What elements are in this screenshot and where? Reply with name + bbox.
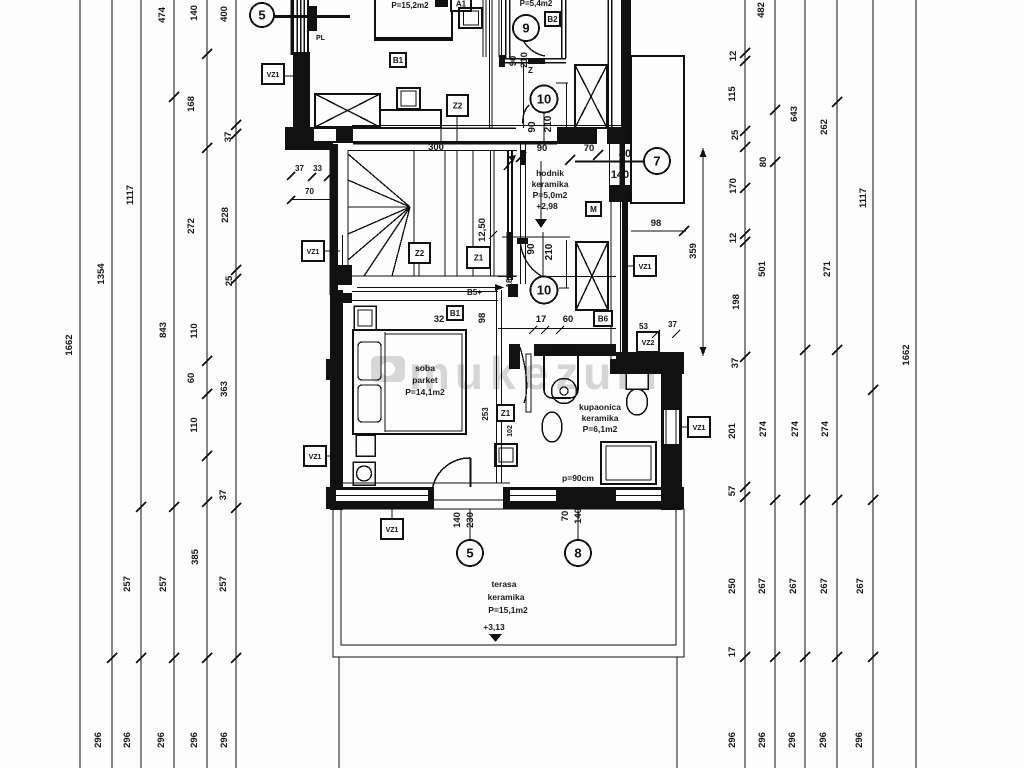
stair treads xyxy=(414,151,512,281)
bathroom right wall xyxy=(616,352,684,374)
svg-text:hodnik: hodnik xyxy=(536,168,564,178)
VZ1 right xyxy=(634,256,656,276)
svg-text:17: 17 xyxy=(727,647,738,658)
svg-text:+2,98: +2,98 xyxy=(536,201,558,211)
marker line from circle 5 top xyxy=(274,15,350,18)
svg-text:P=5,4m2: P=5,4m2 xyxy=(520,0,553,8)
svg-text:VZ1: VZ1 xyxy=(307,249,320,256)
svg-text:+3,13: +3,13 xyxy=(483,622,505,632)
svg-text:33: 33 xyxy=(313,164,322,173)
stair walkline with arrow xyxy=(357,287,503,289)
svg-text:Z2: Z2 xyxy=(453,102,463,111)
left dimension labels xyxy=(64,5,235,748)
svg-text:296: 296 xyxy=(757,732,768,748)
svg-text:474: 474 xyxy=(157,6,168,23)
svg-text:296: 296 xyxy=(156,732,167,748)
svg-text:271: 271 xyxy=(822,260,833,277)
svg-text:296: 296 xyxy=(122,732,133,748)
X-hatched shaft right upper xyxy=(575,65,607,128)
stair left wall xyxy=(330,144,339,295)
svg-text:soba: soba xyxy=(415,363,435,373)
room P=5,4m2 walls xyxy=(505,0,507,58)
svg-text:keramika: keramika xyxy=(532,179,569,189)
door frame hodnik xyxy=(542,232,544,276)
svg-text:B5+: B5+ xyxy=(467,288,482,297)
X-hatched shaft right lower xyxy=(576,242,608,310)
round table xyxy=(353,462,375,485)
black mark top edge xyxy=(435,0,448,7)
dimension 359 arrow line xyxy=(688,148,707,356)
svg-text:37: 37 xyxy=(668,320,677,329)
svg-text:VZ1: VZ1 xyxy=(386,527,399,534)
svg-text:257: 257 xyxy=(158,576,169,592)
svg-text:Z2: Z2 xyxy=(415,249,425,258)
svg-text:PL: PL xyxy=(316,35,326,42)
svg-text:70: 70 xyxy=(305,187,314,196)
svg-text:VZ1: VZ1 xyxy=(267,72,280,79)
dimension 98 xyxy=(631,218,689,236)
door arc room 5,4 xyxy=(519,26,545,56)
circle 8 bottom xyxy=(577,509,579,540)
svg-text:P=15,1m2: P=15,1m2 xyxy=(488,605,528,615)
svg-text:Z1: Z1 xyxy=(501,409,511,418)
label box M hodnik xyxy=(586,202,601,216)
svg-text:B2: B2 xyxy=(547,15,558,24)
svg-text:843: 843 xyxy=(158,322,169,338)
svg-text:B1: B1 xyxy=(450,309,461,318)
svg-text:keramika: keramika xyxy=(582,413,619,423)
svg-text:keramika: keramika xyxy=(488,592,525,602)
svg-text:5: 5 xyxy=(258,8,265,23)
stair winder fan xyxy=(348,154,410,276)
bedroom left wall xyxy=(330,290,343,510)
svg-text:385: 385 xyxy=(190,548,201,565)
svg-text:210: 210 xyxy=(544,243,555,260)
svg-text:267: 267 xyxy=(855,578,866,594)
washbasin xyxy=(542,412,562,442)
wall lines between top rooms xyxy=(482,0,484,57)
pillows xyxy=(358,342,381,380)
nightstand bottom xyxy=(356,435,375,456)
svg-text:90: 90 xyxy=(537,143,548,154)
svg-text:98: 98 xyxy=(651,218,662,229)
terrace inner outline xyxy=(341,509,676,645)
svg-text:198: 198 xyxy=(731,294,742,310)
svg-text:296: 296 xyxy=(727,732,738,748)
hodnik bottom wall xyxy=(498,276,516,278)
right wall notch bar xyxy=(620,144,626,187)
label box B1 top room xyxy=(390,53,406,67)
svg-text:110: 110 xyxy=(189,417,200,432)
label box Z2 top xyxy=(447,95,468,116)
stair outline xyxy=(348,150,517,152)
svg-text:228: 228 xyxy=(220,207,231,223)
bathroom top wall black xyxy=(509,344,520,369)
svg-text:7: 7 xyxy=(653,154,660,169)
VZ1 stair xyxy=(302,241,324,261)
svg-text:VZ1: VZ1 xyxy=(309,454,322,461)
svg-text:274: 274 xyxy=(790,420,801,437)
marker line circle 7 xyxy=(575,160,643,162)
svg-text:10: 10 xyxy=(537,92,551,107)
svg-text:P=6,1m2: P=6,1m2 xyxy=(583,424,618,434)
window1 in south wall xyxy=(336,490,428,501)
label box A1 xyxy=(451,0,471,11)
window2 in south wall xyxy=(510,490,556,501)
bathtub xyxy=(601,442,656,484)
svg-text:168: 168 xyxy=(186,96,197,112)
svg-text:37: 37 xyxy=(730,358,741,369)
duct nested rectangles xyxy=(459,8,482,28)
circle 10 mid xyxy=(531,277,558,304)
svg-text:1354: 1354 xyxy=(96,263,107,285)
svg-text:17: 17 xyxy=(536,314,547,325)
svg-text:253: 253 xyxy=(481,407,490,421)
right dimension ticks xyxy=(740,48,878,662)
svg-text:296: 296 xyxy=(219,732,230,748)
svg-text:296: 296 xyxy=(787,732,798,748)
wall: upper-left exterior xyxy=(293,52,310,130)
svg-text:90: 90 xyxy=(508,56,519,67)
VZ2 right xyxy=(637,332,659,352)
svg-text:12: 12 xyxy=(728,233,739,244)
svg-text:90: 90 xyxy=(527,121,538,133)
svg-text:40: 40 xyxy=(619,148,631,160)
svg-text:37: 37 xyxy=(218,490,229,501)
svg-text:272: 272 xyxy=(186,218,197,234)
svg-text:parket: parket xyxy=(412,375,438,385)
right dilatation wall thin xyxy=(607,0,609,144)
svg-text:250: 250 xyxy=(727,578,738,594)
VZ1 label upper-left xyxy=(262,64,284,84)
svg-text:VZ1: VZ1 xyxy=(639,264,652,271)
svg-text:P=15,2m2: P=15,2m2 xyxy=(391,1,429,10)
stair wall to hodnik xyxy=(520,144,522,284)
svg-text:140: 140 xyxy=(189,5,200,21)
circle 5 top xyxy=(250,3,274,27)
svg-text:25: 25 xyxy=(730,129,741,140)
svg-text:57: 57 xyxy=(727,486,738,497)
svg-text:170: 170 xyxy=(728,178,739,194)
upper-right balcony outline xyxy=(631,56,684,203)
circle 10 top xyxy=(531,86,558,113)
label boxes Z2 Z1 stairs xyxy=(409,243,430,263)
svg-text:110: 110 xyxy=(189,323,200,338)
bedroom top wall xyxy=(352,291,498,293)
svg-text:274: 274 xyxy=(820,420,831,437)
svg-text:37: 37 xyxy=(295,164,304,173)
toilet xyxy=(626,371,648,389)
circle 9 xyxy=(513,15,539,41)
svg-text:296: 296 xyxy=(818,732,829,748)
svg-text:60: 60 xyxy=(563,314,574,325)
svg-text:274: 274 xyxy=(758,420,769,437)
circle 5 bottom xyxy=(469,509,471,540)
svg-text:140: 140 xyxy=(452,512,463,528)
svg-text:B6: B6 xyxy=(598,315,609,324)
svg-text:257: 257 xyxy=(122,576,133,592)
terrace door leaf and arc xyxy=(470,458,472,488)
svg-text:5: 5 xyxy=(466,546,473,561)
svg-text:VZ1: VZ1 xyxy=(693,425,706,432)
svg-text:400: 400 xyxy=(219,6,230,22)
svg-text:VZ2: VZ2 xyxy=(642,340,655,347)
svg-text:60: 60 xyxy=(186,373,197,384)
room P=15,2m2 outline xyxy=(375,0,452,40)
bathroom door leaf xyxy=(526,354,531,412)
svg-text:267: 267 xyxy=(819,578,830,594)
sofa bench xyxy=(380,110,441,128)
svg-text:296: 296 xyxy=(854,732,865,748)
svg-text:98: 98 xyxy=(477,313,488,324)
svg-text:90: 90 xyxy=(526,243,537,255)
window3 in south wall xyxy=(616,490,661,501)
svg-text:643: 643 xyxy=(789,106,800,122)
svg-text:296: 296 xyxy=(189,732,200,748)
hodnik niche top line xyxy=(502,236,570,238)
table with inner square xyxy=(397,88,420,109)
VZ1 below wall xyxy=(381,519,403,539)
svg-text:M: M xyxy=(590,205,597,214)
svg-text:102: 102 xyxy=(507,425,514,437)
svg-text:140: 140 xyxy=(611,169,629,181)
svg-text:12: 12 xyxy=(728,51,739,62)
wall band over stairs xyxy=(352,124,631,126)
svg-text:1117: 1117 xyxy=(858,188,869,208)
svg-text:482: 482 xyxy=(756,2,767,18)
svg-text:363: 363 xyxy=(219,381,230,397)
svg-text:B1: B1 xyxy=(393,56,404,65)
svg-text:10: 10 xyxy=(537,283,551,298)
svg-text:267: 267 xyxy=(757,578,768,594)
bedroom right partition xyxy=(496,290,498,483)
window VZ1 in upper-left wall xyxy=(290,0,294,55)
svg-text:267: 267 xyxy=(788,578,799,594)
svg-text:70: 70 xyxy=(560,511,571,522)
svg-text:Z: Z xyxy=(528,66,533,75)
svg-text:kupaonica: kupaonica xyxy=(579,402,621,412)
svg-text:37: 37 xyxy=(223,132,234,143)
right wall mid with window xyxy=(609,185,630,202)
svg-text:Z1: Z1 xyxy=(474,254,484,263)
shower xyxy=(544,348,578,398)
svg-text:1662: 1662 xyxy=(901,344,912,365)
svg-text:8: 8 xyxy=(574,546,581,561)
right dimension chain lines xyxy=(745,0,916,768)
svg-text:210: 210 xyxy=(543,115,554,132)
south exterior wall xyxy=(331,482,510,484)
left dimension chain lines xyxy=(80,0,236,768)
svg-text:115: 115 xyxy=(727,86,738,102)
svg-text:300: 300 xyxy=(428,142,444,153)
window lines stair wall xyxy=(342,235,344,265)
left dimension ticks xyxy=(107,49,241,663)
svg-text:1117: 1117 xyxy=(125,185,136,205)
svg-text:25: 25 xyxy=(224,275,235,286)
label box B2 xyxy=(545,12,560,26)
svg-text:terasa: terasa xyxy=(491,579,516,589)
nightstand top xyxy=(354,306,376,330)
svg-text:70: 70 xyxy=(584,143,595,154)
door gap south xyxy=(434,487,503,509)
svg-text:257: 257 xyxy=(218,576,229,592)
svg-text:P=5,0m2: P=5,0m2 xyxy=(533,190,568,200)
svg-text:53: 53 xyxy=(639,322,648,331)
bed xyxy=(353,330,466,434)
door frame top hall xyxy=(523,64,525,128)
watermark xyxy=(371,347,662,399)
svg-text:201: 201 xyxy=(727,422,738,439)
svg-text:9: 9 xyxy=(522,21,529,36)
svg-text:P=14,1m2: P=14,1m2 xyxy=(405,387,445,397)
svg-text:32: 32 xyxy=(434,314,445,325)
lower plot outline xyxy=(338,657,340,768)
right dimension labels xyxy=(727,2,912,748)
VZ1 far right xyxy=(688,417,710,437)
svg-text:12,50: 12,50 xyxy=(477,218,488,242)
svg-text:501: 501 xyxy=(757,260,768,277)
X-hatched shaft left xyxy=(315,94,380,127)
cabinet xyxy=(495,444,517,466)
svg-text:262: 262 xyxy=(819,119,830,135)
svg-text:1662: 1662 xyxy=(64,334,75,355)
walkline top arrow xyxy=(504,158,514,170)
svg-text:359: 359 xyxy=(688,243,699,259)
svg-text:p=90cm: p=90cm xyxy=(562,473,594,483)
circle 7 xyxy=(644,148,670,174)
svg-text:296: 296 xyxy=(93,732,104,748)
svg-text:80: 80 xyxy=(758,157,769,168)
VZ1 bedroom left xyxy=(304,446,326,466)
right exterior wall top black xyxy=(621,0,631,130)
terrace outer outline xyxy=(333,509,684,657)
